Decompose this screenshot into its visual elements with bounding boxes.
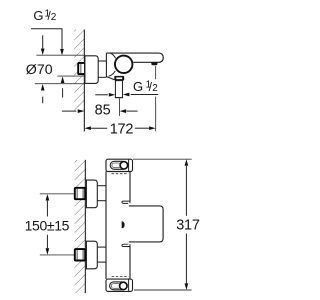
concealed union fitting in wall (bold) xyxy=(78,63,85,74)
centerline marks below top cap xyxy=(112,173,129,175)
dimension 85 xyxy=(62,102,138,118)
concealed fitting up-arrow (x=62.6) xyxy=(61,77,65,98)
extension line B (concealed fitting bottom, y=76.1) xyxy=(57,75,85,77)
wall face line (upper view, also extension line for 85/172 dims) xyxy=(83,30,85,132)
fitting 1 hex union (bold, in wall) xyxy=(75,188,85,199)
body column (plan view) xyxy=(106,172,130,280)
extension line from shower nipple (x=119.5) xyxy=(119,98,121,116)
fitting 1 escutcheon xyxy=(86,180,97,208)
thermostat handle (circle, side view) xyxy=(115,56,133,74)
svg-text:150±15: 150±15 xyxy=(25,217,70,233)
spout (plan view) xyxy=(129,206,163,242)
handle lever top (plan) xyxy=(110,161,126,169)
fitting 1 connector pipe xyxy=(97,186,106,201)
label G1/2 (at shower outlet) xyxy=(133,79,158,94)
dimension 317 xyxy=(133,159,200,290)
extension line C (escutcheon bottom, y=83.7) xyxy=(35,83,85,85)
svg-text:317: 317 xyxy=(176,217,200,233)
wall face line (lower view) xyxy=(84,160,86,293)
extension line from aerator (x=155.65) xyxy=(155,66,157,131)
svg-text:G: G xyxy=(133,79,143,94)
cap inner verticals xyxy=(128,160,130,292)
safety stop button xyxy=(122,221,125,228)
body bottom cap (plan view) xyxy=(106,279,133,291)
label G1/2 (top left) xyxy=(33,8,56,23)
fitting 2 centerline xyxy=(40,254,75,256)
wall hatching (lower view) xyxy=(75,160,86,293)
shower outlet nipple G1/2 xyxy=(115,81,123,98)
fitting 2 escutcheon xyxy=(86,241,97,269)
centerline marks above bottom cap xyxy=(112,276,129,278)
svg-text:172: 172 xyxy=(110,121,134,137)
svg-text:G: G xyxy=(33,8,43,23)
fitting 2 hex union (bold, in wall) xyxy=(75,249,85,260)
spout (side view): top edge, rounded nose, underside xyxy=(106,53,163,62)
dimension 150±15 xyxy=(25,194,70,255)
handle lever bottom (plan) xyxy=(110,282,126,290)
valve body (side view) xyxy=(106,53,115,80)
svg-text:2: 2 xyxy=(51,12,57,23)
spout base flange top ear xyxy=(122,201,130,203)
fitting 2 connector pipe xyxy=(97,247,106,262)
svg-text:Ø70: Ø70 xyxy=(26,62,53,78)
leader arrows for shower outlet G1/2 xyxy=(95,93,158,97)
dimension Ø70 arrows (x=42.7) xyxy=(41,35,45,103)
handle end cap top (bold circle) xyxy=(120,162,128,170)
handle end cap bottom (bold circle) xyxy=(120,282,128,290)
svg-text:2: 2 xyxy=(152,83,158,94)
fitting 1 centerline xyxy=(40,193,75,195)
spout base flange bottom ear xyxy=(122,244,130,246)
escutcheon (upper view) xyxy=(85,56,98,84)
connector pipe escutcheon to body (upper view) xyxy=(98,61,106,77)
dimension 172 xyxy=(84,121,155,137)
leader for top G1/2 label xyxy=(31,29,64,56)
shower outlet collar (bold) xyxy=(114,76,124,81)
svg-text:85: 85 xyxy=(95,102,111,118)
body top cap (plan view) xyxy=(106,159,133,171)
wall hatching (upper view) xyxy=(74,30,84,111)
extension line A (escutcheon top, y=55.2) xyxy=(36,54,85,56)
aerator under spout nose xyxy=(151,62,158,65)
